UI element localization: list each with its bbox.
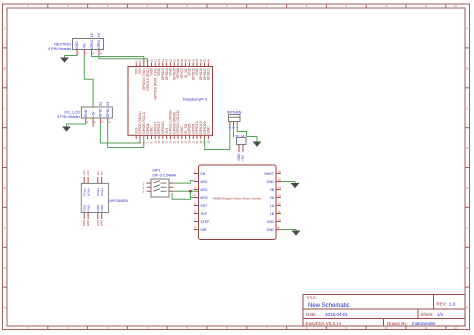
svg-text:New Schematic: New Schematic [308, 303, 350, 309]
module U4 MP1584EN body [81, 183, 108, 212]
svg-text:GND: GND [100, 220, 104, 226]
RPi top pin stubs, numbers and labels [136, 63, 208, 67]
frame zone ticks bottom edge [48, 326, 446, 330]
MP1584EN top inner pin names [82, 188, 104, 197]
wire NEXTION pin1 to ground [65, 55, 78, 58]
svg-text:12: 12 [454, 326, 458, 330]
ground symbol A4988 upper [291, 184, 299, 189]
frame zone ticks right edge [465, 48, 470, 287]
svg-text:DIP-3-2.54MM: DIP-3-2.54MM [153, 174, 176, 178]
svg-text:1/1: 1/1 [437, 312, 444, 317]
svg-text:A: A [466, 27, 468, 31]
connector P1 pin numbers [78, 52, 102, 56]
svg-text:GND: GND [75, 41, 79, 49]
svg-text:14: 14 [278, 186, 282, 190]
svg-text:SLP: SLP [201, 212, 208, 216]
connector P2 net labels 02 03 [99, 102, 110, 106]
connector P1 inner pin names [75, 40, 101, 49]
connector P2 inner pin names [84, 108, 110, 117]
connector P1 pin stubs [77, 50, 99, 56]
switch DIP1 left pin numbers [143, 181, 145, 193]
A4988 right pin names [264, 172, 275, 232]
svg-text:02: 02 [99, 102, 103, 106]
ground symbol near NEXTION [61, 58, 69, 63]
svg-text:REV:: REV: [437, 301, 447, 306]
svg-text:MP1584EN: MP1584EN [110, 199, 129, 203]
ground symbol near I2C [63, 127, 71, 132]
svg-text:1B: 1B [270, 212, 275, 216]
svg-text:10: 10 [278, 218, 282, 222]
svg-text:D: D [4, 146, 6, 150]
wire DIP pin to A4988 MS1 [174, 181, 194, 184]
svg-text:A4988 Stepper Motor Driver Car: A4988 Stepper Motor Driver Carrier [213, 197, 262, 201]
frame zone ticks top edge [48, 4, 446, 8]
svg-text:H: H [4, 305, 6, 309]
svg-text:4 PIN Header: 4 PIN Header [57, 115, 81, 119]
svg-text:EN: EN [201, 172, 206, 176]
connector P2 I2C_LCD 4 PIN Header label [57, 111, 81, 120]
svg-text:GND: GND [266, 228, 274, 232]
svg-text:Drawn By:: Drawn By: [387, 321, 408, 326]
junction dot MS2 node [189, 190, 192, 193]
connector P2 pin numbers [87, 120, 111, 124]
svg-text:GPIO21: GPIO21 [207, 68, 211, 80]
MP1584EN top pin stubs [84, 177, 102, 183]
connector P1 NEXTION 4 PIN Header label [48, 43, 72, 52]
svg-text:+5v: +5v [83, 43, 87, 49]
wire NEXTION +5v down to I2C header [84, 55, 93, 107]
svg-text:12: 12 [278, 202, 282, 206]
svg-text:03: 03 [106, 102, 110, 106]
svg-text:DIP1: DIP1 [153, 169, 161, 173]
svg-text:EasyEDA V5.3.14: EasyEDA V5.3.14 [306, 321, 342, 326]
switch DIP1 left pin stubs [147, 183, 152, 191]
svg-text:VMOT: VMOT [264, 172, 274, 176]
svg-text:10: 10 [385, 4, 389, 8]
svg-text:13: 13 [278, 194, 282, 198]
svg-text:RST: RST [201, 204, 208, 208]
svg-text:1A: 1A [270, 204, 275, 208]
svg-text:H: H [466, 305, 468, 309]
svg-text:Date:: Date: [306, 312, 317, 317]
svg-text:GPIO: GPIO [99, 108, 103, 117]
svg-text:VDD: VDD [267, 220, 275, 224]
svg-text:11: 11 [278, 210, 281, 214]
svg-text:MS2: MS2 [201, 188, 208, 192]
svg-text:16: 16 [97, 33, 101, 37]
svg-text:DIR: DIR [201, 228, 207, 232]
module U2 A4988 body [199, 165, 277, 240]
connector P2 body [81, 107, 112, 118]
svg-text:NEXTION: NEXTION [54, 43, 71, 47]
wire DIP lower loop [172, 191, 190, 199]
svg-text:C: C [4, 106, 6, 110]
svg-text:GPIO: GPIO [97, 40, 101, 49]
wire A4988 GND15 to ground [281, 182, 295, 184]
svg-text:GPIO: GPIO [106, 108, 110, 117]
frame zone ticks left edge [3, 48, 8, 287]
svg-text:+5v: +5v [91, 111, 95, 117]
transistor Q1 pin stubs [230, 122, 237, 126]
switch DIP1 body [151, 179, 169, 197]
A4988 left pin stubs [194, 174, 199, 230]
wire RPi GPIO26 loop to IRF540N gate [205, 126, 230, 150]
svg-text:4 PIN Header: 4 PIN Header [48, 47, 72, 51]
svg-text:GND-: GND- [86, 204, 90, 212]
svg-text:F: F [4, 226, 6, 230]
svg-text:2018-04-01: 2018-04-01 [325, 312, 349, 317]
wire IRF540N source to 5V module right [237, 126, 246, 137]
svg-text:VOut+: VOut+ [100, 188, 104, 197]
svg-text:B: B [4, 66, 6, 70]
A4988 left pin names [201, 172, 211, 232]
svg-text:-Vin: -Vin [100, 171, 104, 176]
transistor Q1 body [229, 115, 241, 122]
wire I2C pin1 to ground [67, 124, 86, 128]
MP1584EN bottom inner pin names [82, 204, 104, 212]
connector P2 pin stubs [86, 118, 108, 127]
connector P1 body [73, 39, 104, 50]
A4988 right pin numbers [278, 170, 282, 230]
svg-text:10: 10 [385, 326, 389, 330]
svg-text:matszander: matszander [412, 321, 436, 326]
svg-text:D: D [466, 146, 468, 150]
power module U3 pin stubs [239, 145, 243, 153]
svg-text:1.0: 1.0 [449, 301, 456, 306]
title block border [303, 295, 465, 327]
svg-text:2A: 2A [270, 196, 275, 200]
A4988 left pin numbers [194, 170, 196, 230]
svg-text:G: G [4, 266, 6, 270]
svg-text:11: 11 [424, 4, 427, 8]
svg-text:GND: GND [84, 109, 88, 117]
wire I2C GPIO03 to RPi pin5 [108, 124, 144, 148]
MP1584EN top pin numbers [82, 170, 104, 176]
svg-text:2B: 2B [270, 188, 275, 192]
svg-text:I2C_LCD: I2C_LCD [64, 111, 80, 115]
svg-text:39: 39 [207, 140, 211, 144]
svg-text:15: 15 [278, 178, 282, 182]
power module U3 body [237, 138, 247, 145]
svg-text:+5V: +5V [241, 154, 245, 161]
switch DIP1 labels [153, 169, 176, 178]
wire NEXTION pin4 to RPi GPIO15 [99, 55, 148, 63]
wire DIP pin to A4988 MS2 [174, 190, 200, 192]
svg-text:E: E [4, 186, 6, 190]
MP1584EN bottom pin stubs [84, 213, 102, 220]
wire branch to A4988 MS3 [190, 191, 193, 197]
svg-text:16: 16 [278, 170, 282, 174]
wire NEXTION pin3 to RPi GPIO14 [92, 55, 144, 63]
power module U3 net labels [237, 153, 245, 161]
svg-text:G: G [229, 126, 231, 130]
svg-text:G: G [466, 266, 468, 270]
svg-text:40: 40 [207, 58, 211, 62]
svg-text:GND: GND [266, 180, 274, 184]
wire 5V module to ground [247, 137, 258, 143]
ground symbol right of 5V module [253, 142, 261, 147]
svg-text:12: 12 [454, 4, 458, 8]
svg-text:GND: GND [86, 220, 90, 226]
svg-text:TITLE:: TITLE: [306, 296, 317, 300]
connector P1 net labels 15 16 [90, 33, 101, 37]
svg-text:B: B [466, 66, 468, 70]
wire A4988 GND9 to ground [281, 230, 296, 232]
transistor Q1 pin names G D S [229, 126, 238, 130]
svg-text:E: E [466, 186, 468, 190]
RPi bottom pin stubs, numbers and labels [136, 135, 208, 139]
svg-text:RaspberryPi 3: RaspberryPi 3 [183, 98, 207, 102]
switch DIP1 right pin stubs [169, 183, 174, 191]
svg-text:MS3: MS3 [201, 196, 208, 200]
wire IRF540N drain to 5V module [233, 126, 235, 138]
svg-text:A: A [4, 27, 6, 31]
svg-text:VOut+: VOut+ [86, 188, 90, 197]
svg-text:Sheet:: Sheet: [421, 312, 434, 317]
svg-text:11: 11 [424, 326, 427, 330]
svg-text:MS1: MS1 [201, 180, 208, 184]
svg-text:GPIO: GPIO [90, 40, 94, 49]
IC5 RaspberryPi 3 body [128, 67, 213, 136]
svg-text:C: C [466, 106, 468, 110]
svg-text:IRF540N: IRF540N [227, 111, 242, 115]
wire I2C GPIO02 to RPi pin3 [100, 124, 140, 144]
svg-text:GND: GND [207, 126, 211, 134]
svg-text:+Vin: +Vin [86, 170, 90, 176]
svg-text:15: 15 [90, 33, 94, 37]
MP1584EN bottom pin numbers [82, 220, 104, 226]
svg-text:F: F [466, 226, 468, 230]
svg-text:GND-: GND- [100, 204, 104, 212]
svg-text:STEP: STEP [201, 220, 211, 224]
A4988 right pin stubs [276, 174, 281, 230]
ground symbol A4988 lower [292, 231, 300, 236]
